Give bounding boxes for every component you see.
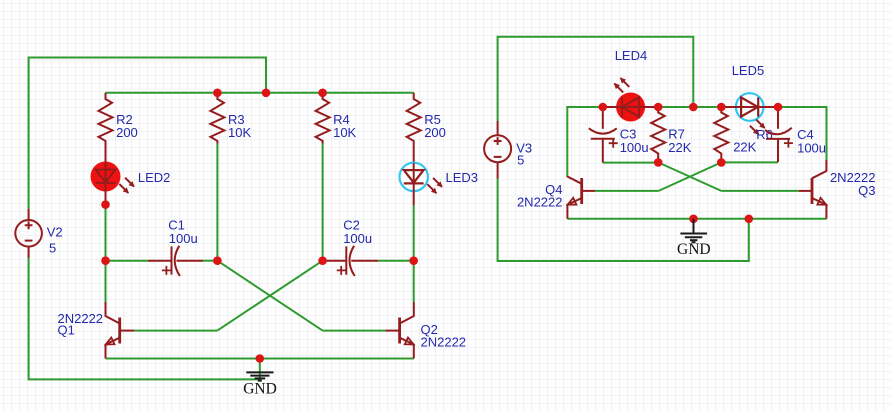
voltage source V3 [484,121,532,179]
wire GND1 stub [259,359,261,381]
svg-text:5: 5 [517,153,524,168]
LED4 (lit) [603,48,658,122]
svg-text:LED3: LED3 [446,170,479,185]
wire LED2 cathode to mid row and Q1 collector [105,205,107,302]
svg-text:100u: 100u [797,141,826,156]
svg-text:200: 200 [424,125,446,140]
svg-text:100u: 100u [620,140,649,155]
svg-text:22K: 22K [733,140,756,155]
junction dots left circuit [213,89,222,98]
wire cross diagonal C2 node to Q1 base [217,261,322,331]
wire R6 C4 bottom row [721,161,778,163]
transistor Q2 [385,302,466,359]
wire C1 right to node [203,260,217,262]
wire right rail segment a [567,107,603,176]
wire cross diagonal R6 to Q4 base [659,162,722,191]
wire Q1 base row [134,330,217,332]
wire Q2 base row [323,330,386,332]
svg-text:Q1: Q1 [58,323,75,338]
transistor Q1 [58,302,135,359]
svg-text:2N2222: 2N2222 [421,335,467,350]
svg-text:Q3: Q3 [858,183,875,198]
svg-text:100u: 100u [169,231,198,246]
LED5 (off) [721,63,778,134]
wire right rail segment b [658,106,721,108]
wire right rail segment c [778,107,827,160]
wire Q4 base row [595,190,659,192]
node below LED2 [101,200,110,209]
wire V3 top loop [498,37,694,121]
wire emitter row left circuit [106,358,414,360]
wire C3 bottom row [603,162,658,164]
svg-text:GND: GND [243,380,277,397]
voltage source V2 [15,209,62,258]
transistor Q3 [799,160,876,219]
transistor Q4 [517,176,595,219]
junction dots right circuit [599,103,608,112]
wire cross diagonal R7 to Q3 base [658,162,721,191]
ground GND2 [677,219,711,258]
resistor R2 [99,93,138,162]
svg-text:10K: 10K [333,125,356,140]
wire R3 bottom to mid row [216,144,218,261]
resistor R3 [210,93,251,144]
wire mid row left segment [106,260,149,262]
svg-text:10K: 10K [228,125,251,140]
wire V2 bottom loop [29,258,259,379]
capacitor C4 [765,107,826,162]
capacitor C3 [589,107,649,163]
wire Q3 base row [721,190,799,192]
resistor R7 [651,107,692,162]
ground GND1 [243,372,277,397]
svg-text:100u: 100u [343,231,372,246]
resistor R6 [714,107,773,162]
svg-text:LED4: LED4 [615,48,648,63]
wire C2 right to node [378,260,414,262]
capacitor C1 [148,217,203,276]
svg-text:22K: 22K [668,140,691,155]
svg-text:2N2222: 2N2222 [517,195,563,210]
svg-text:GND: GND [677,241,711,258]
svg-text:V2: V2 [47,225,63,240]
resistor R5 [407,93,446,163]
wire V3 bottom loop [498,179,749,262]
svg-text:LED5: LED5 [732,63,765,78]
svg-text:LED2: LED2 [138,170,171,185]
wire LED3 cathode to mid row and Q2 collector [413,205,415,302]
wire emitter row right circuit [567,218,826,220]
wire cross diagonal C1 node to Q2 base [217,261,322,331]
capacitor C2 [323,217,378,276]
svg-text:200: 200 [116,125,138,140]
LED3 (off) [400,163,479,206]
resistor R4 [316,93,357,144]
svg-text:5: 5 [49,241,56,256]
LED2 (lit) [91,160,171,205]
wire V2 top loop [29,58,266,210]
wire R4 bottom to mid row [322,144,324,261]
wire left top rail [106,92,414,94]
